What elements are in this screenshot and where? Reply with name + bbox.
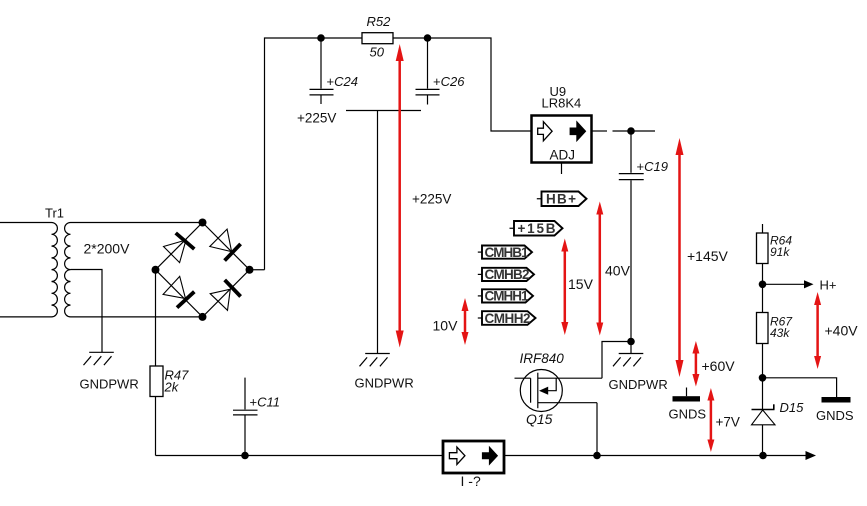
node bridge bottom corner (199, 313, 207, 321)
svg-text:+60V: +60V (702, 358, 736, 374)
transistor Q15 IRF840 (515, 342, 632, 456)
wire ground rail bar (346, 111, 421, 354)
capacitor C19 (619, 131, 668, 342)
node junction D15 top (759, 374, 767, 382)
svg-text:GNDPWR: GNDPWR (355, 376, 414, 391)
wire U9 output (592, 130, 656, 132)
svg-text:+225V: +225V (297, 111, 336, 126)
wire center tap to ground (71, 270, 103, 353)
block I-? current sensor (443, 441, 504, 489)
svg-text:+7V: +7V (716, 415, 740, 430)
svg-text:+15B: +15B (518, 221, 556, 236)
node junction D15 bottom (759, 452, 767, 460)
resistor R52 (362, 14, 393, 60)
diode bridge top-left (164, 233, 195, 263)
svg-text:HB+: HB+ (546, 192, 576, 207)
wire bridge right corner to rail (250, 269, 265, 271)
diode D15 zener (752, 378, 805, 456)
svg-text:50: 50 (370, 45, 385, 60)
svg-text:10V: 10V (433, 318, 459, 334)
tag CMHB2 (478, 267, 534, 282)
wire to GNDS right (763, 378, 837, 397)
arrow 40V measurement (596, 202, 630, 336)
capacitor C26 (416, 38, 466, 105)
wire top +225V rail (265, 38, 532, 270)
svg-text:Q15: Q15 (526, 411, 553, 427)
svg-text:+40V: +40V (825, 323, 859, 339)
resistor R47 (150, 366, 189, 397)
svg-text:GNDS: GNDS (669, 407, 707, 422)
ground GNDS (left, floating) (669, 388, 707, 422)
transformer Tr1 (0, 206, 130, 317)
svg-text:IRF840: IRF840 (520, 351, 565, 366)
diode bridge bottom-left (163, 276, 194, 307)
capacitor C24 (310, 38, 358, 104)
wire secondary bottom to bridge (71, 316, 203, 318)
wire bridge left corner down to R47 (155, 270, 157, 366)
svg-text:43k: 43k (770, 326, 790, 340)
svg-text:91k: 91k (770, 245, 790, 259)
tag CMHB1 (478, 245, 532, 260)
svg-text:+C19: +C19 (637, 159, 668, 174)
wire R47 to bottom rail (155, 397, 157, 456)
arrow +60V measurement (692, 341, 735, 387)
ground GNDPWR (right) (609, 342, 668, 393)
svg-text:CMHB1: CMHB1 (485, 245, 529, 260)
svg-text:+C24: +C24 (327, 74, 358, 89)
ground GNDPWR (transformer) (80, 352, 139, 391)
diode bridge bottom-right (210, 280, 240, 310)
svg-text:CMHH2: CMHH2 (485, 311, 531, 326)
svg-text:I -?: I -? (461, 473, 481, 489)
node bridge right corner (246, 266, 254, 274)
node junction H+ (759, 281, 767, 289)
tag HB+ (537, 192, 587, 207)
node bridge top corner (199, 219, 207, 227)
resistor R67 (757, 284, 794, 378)
svg-text:CMHB2: CMHB2 (485, 267, 530, 282)
arrow +145V measurement (676, 138, 729, 377)
arrow +40V measurement (814, 292, 858, 369)
node junction Q15 source (593, 452, 601, 460)
svg-text:40V: 40V (605, 263, 631, 279)
ground GNDPWR (middle) (355, 354, 414, 391)
capacitor C11 (233, 378, 280, 456)
svg-text:D15: D15 (780, 400, 805, 415)
svg-text:GNDPWR: GNDPWR (80, 377, 139, 392)
svg-text:R52: R52 (367, 14, 392, 29)
svg-text:ADJ: ADJ (550, 148, 576, 163)
diode bridge top-right (210, 229, 241, 261)
svg-text:+C11: +C11 (250, 395, 280, 410)
svg-text:CMHH1: CMHH1 (485, 289, 529, 304)
node bridge left corner (152, 266, 160, 274)
wire bottom rail (156, 455, 807, 457)
resistor R64 (757, 224, 793, 284)
svg-text:+145V: +145V (687, 248, 729, 264)
wire bottom rail end arrow (806, 451, 817, 460)
node junction GNDPWR right / C19 bottom (627, 338, 635, 346)
node junction top-left of R52 (317, 34, 325, 42)
tag CMHH1 (478, 289, 533, 304)
wire secondary top to bridge (71, 222, 203, 224)
tag +15B (510, 221, 563, 236)
svg-text:GNDS: GNDS (816, 408, 854, 423)
svg-text:LR8K4: LR8K4 (542, 96, 582, 111)
wire H+ arrow (763, 278, 837, 293)
arrow +7V measurement (707, 388, 740, 452)
svg-text:+225V: +225V (412, 192, 451, 207)
svg-text:2*200V: 2*200V (84, 241, 131, 257)
svg-text:+C26: +C26 (433, 74, 465, 89)
tag CMHH2 (478, 311, 536, 326)
svg-text:GNDPWR: GNDPWR (609, 377, 668, 392)
node junction at C19 top (627, 127, 635, 135)
node junction C11 bottom (241, 452, 249, 460)
arrow 10V measurement (433, 298, 469, 345)
svg-text:Tr1: Tr1 (45, 206, 64, 221)
svg-text:2k: 2k (164, 380, 180, 395)
svg-text:H+: H+ (820, 278, 837, 293)
node junction top-right of R52 (424, 34, 432, 42)
arrow +225V measurement (396, 44, 452, 348)
arrow 15V measurement (561, 239, 593, 336)
svg-text:15V: 15V (568, 276, 594, 292)
op-amp U9 regulator LR8K4 (532, 84, 592, 174)
wire bridge diamond (156, 223, 250, 317)
ground GNDS (right) (816, 397, 854, 423)
